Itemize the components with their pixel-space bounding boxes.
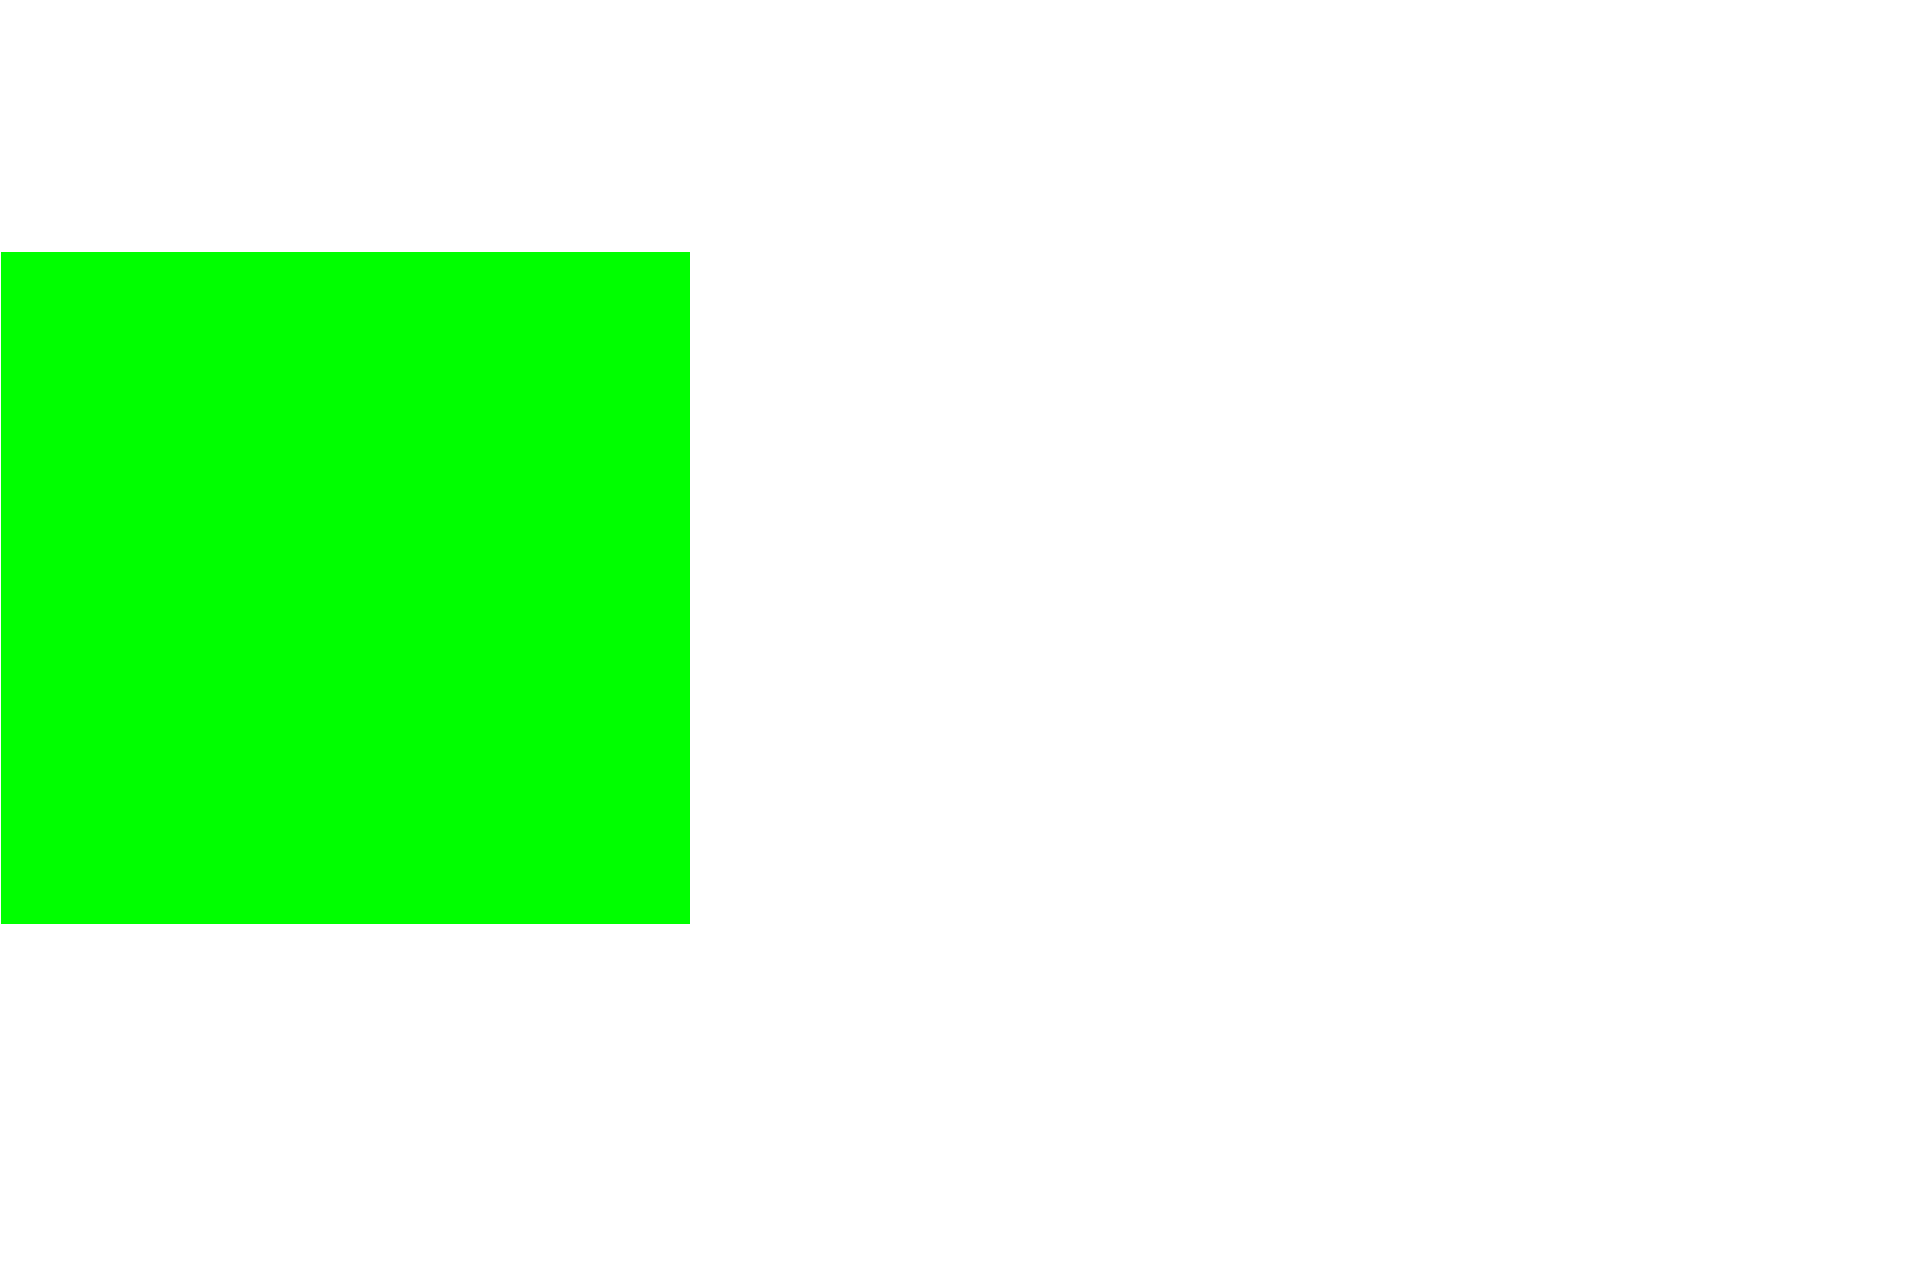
- green rectangle: [1, 252, 690, 924]
